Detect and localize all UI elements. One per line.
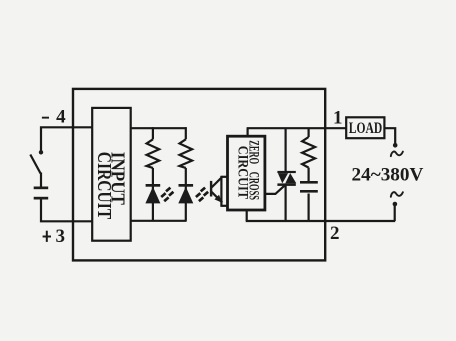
svg-text:CIRCUIT: CIRCUIT — [93, 152, 115, 220]
svg-text:24~380V: 24~380V — [352, 164, 424, 185]
svg-text:2: 2 — [330, 223, 340, 244]
svg-text:CIRCUIT: CIRCUIT — [234, 146, 250, 199]
svg-text:1: 1 — [333, 108, 343, 129]
svg-text:3: 3 — [56, 226, 66, 247]
svg-text:4: 4 — [56, 107, 66, 128]
svg-text:LOAD: LOAD — [349, 120, 383, 137]
